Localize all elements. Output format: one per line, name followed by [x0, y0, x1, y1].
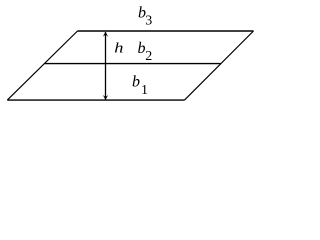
svg-text:h: h: [114, 39, 123, 56]
arrowhead up: [103, 32, 109, 37]
svg-text:1: 1: [141, 83, 148, 98]
svg-text:b: b: [132, 74, 140, 91]
top edge (base b3): [78, 30, 254, 32]
left side wire: [7, 31, 77, 100]
arrowhead down: [103, 95, 109, 100]
svg-text:2: 2: [145, 49, 152, 64]
middle line (median b2): [44, 63, 221, 65]
svg-text:b: b: [138, 40, 146, 57]
bottom edge (base b1): [7, 99, 184, 101]
svg-text:3: 3: [145, 14, 152, 29]
height arrow shaft: [105, 32, 107, 100]
right side wire: [185, 31, 254, 100]
